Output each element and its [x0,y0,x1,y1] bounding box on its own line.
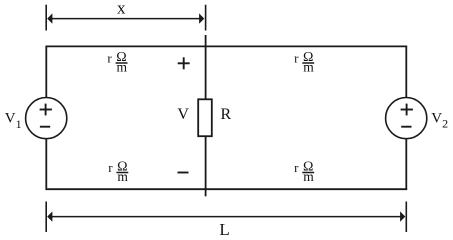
svg-text:r: r [294,50,299,65]
svg-text:R: R [221,106,232,123]
node V minus polarity [178,172,189,174]
wire top [46,45,408,47]
dimension L [46,202,406,239]
resistor R [198,99,212,136]
svg-text:V: V [177,106,189,123]
dimension x [46,0,205,30]
svg-text:r: r [294,160,299,175]
svg-text:r: r [107,50,112,65]
svg-text:L: L [219,220,229,239]
voltage source V1 [26,98,67,139]
svg-text:m: m [303,169,314,184]
svg-text:m: m [117,169,128,184]
wire left upper [45,46,47,98]
label r ohm/m top-right [294,50,314,74]
label r ohm/m bottom-right [294,160,314,184]
wire left lower [45,139,47,190]
label r ohm/m top-left [107,50,127,74]
svg-text:m: m [117,59,128,74]
wire middle upper [205,35,207,100]
voltage source V2 [386,98,427,139]
svg-text:r: r [108,160,113,175]
wire right upper [405,46,407,98]
svg-text:x: x [117,0,126,18]
wire middle lower [205,136,207,196]
node V plus polarity [178,57,190,69]
svg-text:m: m [303,59,314,74]
wire right lower [405,139,407,190]
wire bottom [46,188,408,190]
label r ohm/m bottom-left [108,160,128,184]
